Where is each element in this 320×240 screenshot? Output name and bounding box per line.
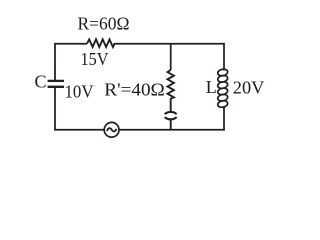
wire: middle branch upper bbox=[170, 44, 172, 70]
svg-text:R'=40Ω: R'=40Ω bbox=[104, 79, 165, 99]
inductor L coil loop 6 bbox=[217, 100, 228, 108]
wire: right vertical upper bbox=[223, 43, 225, 71]
resistor R' (R'=40 ohm) vertical zigzag bbox=[168, 70, 174, 99]
svg-text:R=60Ω: R=60Ω bbox=[78, 14, 130, 34]
lamp/element bottom arc bbox=[165, 117, 176, 119]
svg-text:L: L bbox=[206, 77, 217, 97]
wire: top left segment bbox=[55, 43, 87, 45]
svg-text:20V: 20V bbox=[233, 78, 264, 98]
wire: top right segment bbox=[114, 43, 224, 45]
AC source sine symbol bbox=[107, 128, 117, 131]
wire: bottom segment bbox=[54, 129, 225, 131]
AC source circle bbox=[104, 122, 119, 137]
wire: left vertical upper (to capacitor) bbox=[54, 43, 56, 80]
wire: middle branch between resistor and lamp bbox=[170, 98, 172, 112]
inductor L coil loop 2 bbox=[217, 75, 228, 83]
svg-text:C: C bbox=[35, 71, 47, 91]
wire: right vertical lower bbox=[223, 106, 225, 131]
inductor L coil loop 4 bbox=[217, 87, 228, 95]
resistor R (R=60 ohm) zigzag bbox=[87, 39, 115, 47]
svg-text:10V: 10V bbox=[65, 82, 94, 102]
inductor L coil loop 5 bbox=[217, 94, 228, 102]
svg-text:15V: 15V bbox=[81, 49, 109, 69]
inductor L coil loop 3 bbox=[217, 81, 228, 89]
inductor L coil loop 1 bbox=[217, 68, 228, 76]
wire: left vertical lower bbox=[54, 88, 56, 131]
wire: middle branch lower bbox=[170, 119, 172, 131]
capacitor C plates bbox=[48, 80, 64, 82]
lamp/element top arc bbox=[165, 112, 176, 114]
